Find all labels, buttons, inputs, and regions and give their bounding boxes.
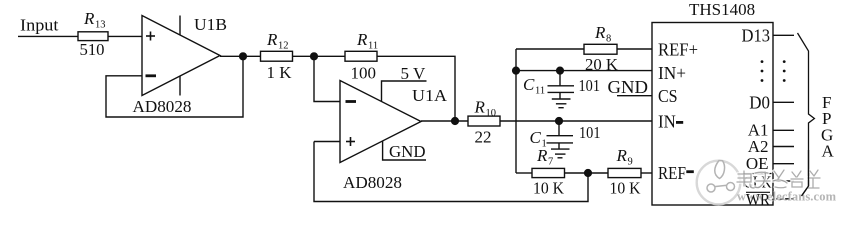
svg-text:CS: CS	[658, 86, 678, 106]
svg-text:8: 8	[606, 34, 611, 45]
wire OE stub	[773, 163, 794, 165]
svg-text:7: 7	[548, 157, 553, 168]
op-amp U1A	[340, 81, 421, 163]
resistor R7	[532, 168, 565, 177]
wire divider to R7	[516, 172, 532, 174]
wire U1A GND power pin	[383, 141, 426, 160]
ADC THS1408 body	[652, 23, 773, 206]
ground symbol under C1	[551, 149, 570, 158]
svg-text:D0: D0	[749, 93, 770, 113]
watermark chinese characters	[737, 170, 820, 188]
svg-text:GND: GND	[389, 142, 426, 161]
svg-text:IN+: IN+	[658, 63, 686, 83]
node C1 tap junction	[556, 118, 563, 125]
svg-text:9: 9	[628, 157, 633, 168]
svg-text:13: 13	[95, 20, 106, 31]
wire GND net label stub to CS pin	[617, 95, 652, 97]
op-amp U1A plus input symbol	[346, 137, 355, 146]
wire U1A plus input down to bottom rail	[314, 142, 588, 202]
svg-text:22: 22	[475, 128, 492, 147]
svg-text:R: R	[616, 146, 628, 165]
svg-text:510: 510	[80, 40, 105, 59]
svg-text:OE: OE	[746, 154, 769, 173]
svg-text:101: 101	[579, 123, 601, 142]
node U1B output junction	[240, 53, 247, 60]
svg-text:THS1408: THS1408	[689, 0, 755, 19]
wire Input to R13	[18, 35, 78, 37]
op-amp U1B top power pin	[179, 16, 181, 36]
svg-text:REF+: REF+	[658, 40, 698, 60]
svg-text:A: A	[822, 142, 835, 161]
svg-text:10: 10	[486, 108, 497, 119]
resistor R10	[468, 116, 500, 126]
svg-text:R: R	[83, 9, 95, 28]
wire U1B feedback loop	[106, 56, 243, 117]
watermark logo circle	[697, 161, 741, 205]
ground symbol under C11	[552, 99, 571, 108]
wire U1B output to R12	[220, 55, 261, 57]
resistor R13	[78, 32, 108, 41]
ellipsis dots inside THS1408	[761, 60, 764, 82]
svg-text:REF: REF	[658, 163, 686, 183]
wire R11 to U1A output node	[377, 56, 455, 121]
wire IN+ rail to THS1408	[516, 70, 652, 72]
svg-text:10 K: 10 K	[533, 179, 565, 198]
svg-text:R: R	[266, 30, 278, 49]
wire U1A output to R10	[421, 120, 468, 122]
wire A2 stub	[773, 146, 794, 148]
svg-text:100: 100	[351, 64, 377, 83]
svg-text:10 K: 10 K	[610, 179, 642, 198]
svg-text:GND: GND	[608, 77, 649, 97]
node U1A output junction	[452, 118, 459, 125]
op-amp U1B plus input symbol	[146, 32, 155, 41]
wire A1 stub	[773, 129, 794, 131]
svg-text:AD8028: AD8028	[133, 97, 192, 116]
svg-text:11: 11	[368, 41, 378, 52]
wire WR stub	[773, 198, 794, 200]
overline for WR pin	[746, 191, 770, 193]
svg-text:R: R	[474, 98, 486, 117]
watermark url text	[737, 190, 838, 205]
capacitor C1	[547, 121, 574, 149]
wire D0 output stub	[773, 101, 794, 103]
resistor R12	[261, 51, 293, 61]
wire R7 to R9	[565, 172, 609, 174]
resistor R9	[608, 168, 641, 177]
capacitor C11	[548, 71, 575, 99]
svg-text:C: C	[523, 75, 535, 94]
svg-text:12: 12	[278, 41, 289, 52]
wire node down to U1A minus input	[314, 56, 340, 101]
svg-text:R: R	[594, 23, 606, 42]
svg-text:U1B: U1B	[194, 15, 227, 34]
op-amp U1B minus input symbol	[146, 74, 157, 77]
svg-text:IN: IN	[658, 112, 676, 132]
wire D13 output stub	[773, 34, 794, 36]
node REF- bias junction	[585, 170, 592, 177]
wire R13 to U1B + input	[108, 35, 142, 37]
brace lower segment redrawn over watermark	[802, 150, 809, 196]
overline for CLK pin	[744, 173, 772, 175]
wire U1A plus input stub	[314, 141, 340, 143]
op-amp U1A minus input symbol	[346, 100, 357, 103]
brace bus grouping to FPGA	[798, 33, 815, 196]
svg-text:AD8028: AD8028	[343, 173, 402, 192]
resistor R11	[345, 51, 377, 61]
wire REF+ rail from divider to R8	[516, 48, 584, 50]
svg-text:11: 11	[535, 86, 545, 97]
node C11 tap junction	[557, 67, 564, 74]
wire R8 to THS1408 REF+ pin	[617, 48, 652, 50]
wire R9 to THS1408 REF- pin	[641, 172, 652, 174]
node R12/R11 junction	[311, 53, 318, 60]
op-amp U1B	[142, 16, 220, 96]
ellipsis dots on bus stubs	[783, 60, 786, 82]
svg-text:1 K: 1 K	[267, 63, 293, 82]
op-amp U1B bottom power pin	[179, 76, 181, 96]
svg-text:5 V: 5 V	[401, 64, 426, 83]
svg-text:R: R	[356, 30, 368, 49]
svg-text:D13: D13	[742, 26, 771, 46]
resistor R8	[584, 44, 617, 54]
wire R10 to THS1408 IN- pin	[500, 120, 652, 122]
svg-text:R: R	[536, 146, 548, 165]
wire R12 to R11	[293, 55, 346, 57]
svg-text:Input: Input	[20, 16, 59, 35]
node divider / IN+ rail junction	[513, 67, 520, 74]
wire U1A 5V power pin	[382, 81, 427, 102]
wire bias divider vertical	[515, 49, 517, 173]
svg-text:20 K: 20 K	[585, 55, 619, 74]
svg-text:101: 101	[579, 76, 601, 95]
wire CLK stub	[773, 180, 794, 182]
svg-text:C: C	[530, 128, 542, 147]
svg-text:U1A: U1A	[412, 86, 448, 105]
